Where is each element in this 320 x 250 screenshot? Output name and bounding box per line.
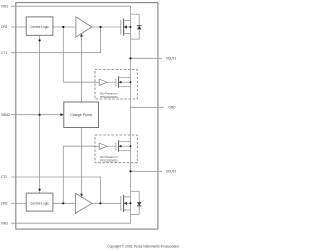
svg-text:Control Logic: Control Logic [30,25,49,29]
wire control logic 2 to amp [53,202,76,204]
node Q2 body-source [130,202,132,204]
arrowhead riser into amp1 [80,34,83,37]
svg-text:VIN1: VIN1 [1,4,8,8]
node CL2 out [62,202,64,204]
svg-text:Not Present in: Not Present in [100,155,118,159]
node QOD1 body [130,81,132,83]
node VOUT2 [129,170,131,172]
body arrow Q2 [124,202,127,205]
QOD block 1 (dashed) [95,70,137,99]
QOD block 2 (dashed) [95,135,137,163]
svg-text:VBIAS: VBIAS [1,113,10,117]
node gate2/CT2 [99,202,101,204]
wire VOUT1 net [131,57,163,59]
IC boundary [16,3,158,230]
wire control logic 1 to amp [53,26,76,28]
wire VBIAS pin [11,114,61,116]
arrowhead riser into amp2 [80,194,83,197]
svg-text:Copyright © 2016, Texas Instru: Copyright © 2016, Texas Instruments Inco… [107,244,178,248]
op-amp A2 (gate driver 2) [75,193,91,213]
op-amp A1 (gate driver 1) [76,17,92,37]
wire GND net [131,106,164,108]
svg-text:VIN2: VIN2 [1,221,8,225]
svg-text:Control Logic: Control Logic [30,201,49,205]
node gate1/CT1 [99,26,101,28]
body diode D1 [137,26,141,30]
node CL1 out [62,26,64,28]
svg-text:TPS22920/921: TPS22920/921 [100,95,118,99]
svg-text:CT1: CT1 [1,51,7,55]
buffer B1 [99,79,107,86]
svg-text:Charge Pump: Charge Pump [70,113,92,117]
wire ON2 pin [11,202,26,204]
svg-text:Not Present in: Not Present in [100,91,118,95]
charge pump U3 [64,102,99,128]
wire amp2 output to gate [92,202,121,204]
wire buffer2 to gate [107,145,116,147]
control logic U1 [26,17,53,35]
body arrow Q1 [124,25,127,28]
wire CT2 [11,177,101,203]
wire QOD column [130,39,132,191]
node CL1 bus [39,39,41,41]
wire VIN1 rail [11,6,131,14]
wire control logic 2 to QOD2 buffer [63,146,99,203]
control logic U2 [26,193,53,211]
svg-text:GND: GND [168,106,176,110]
transistor Q3 QOD FET 1 [116,76,131,88]
wire charge pump riser top [81,34,83,102]
wire VIN2 rail [11,214,131,223]
transistor Q4 QOD FET 2 [116,140,131,152]
node QOD2 body [130,145,132,147]
wire VOUT2 net [131,170,163,172]
wire amp1 output to gate [92,26,121,28]
buffer B2 [99,143,107,150]
svg-text:TPS22920/921: TPS22920/921 [100,159,118,163]
wire VBIAS bus [39,35,41,193]
arrowhead VBIAS into charge pump [60,113,64,116]
node CL2 bus [39,189,41,191]
svg-text:ON2: ON2 [1,201,8,205]
svg-text:VOUT1: VOUT1 [166,56,177,60]
svg-text:ON1: ON1 [1,25,8,29]
wire ON1 pin [11,26,26,28]
body diode D2 [137,202,141,206]
svg-text:VOUT2: VOUT2 [166,170,177,174]
wire buffer1 to gate [107,81,116,83]
wire charge pump riser bottom [81,128,83,195]
junction dots [39,26,132,205]
wire CT1 [11,27,101,53]
transistor Q1 pass FET channel 1 [121,14,139,39]
node Q1 body-source [130,26,132,28]
node VBIAS tap [39,114,41,116]
svg-text:CT2: CT2 [1,175,7,179]
node VOUT1 [129,57,131,59]
wire control logic 1 to QOD1 buffer [63,27,99,82]
transistor Q2 pass FET channel 2 [121,191,139,214]
